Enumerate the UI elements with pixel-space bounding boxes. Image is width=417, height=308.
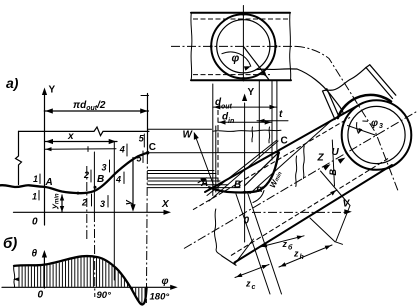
dimension t (257, 120, 288, 122)
svg-text:α: α (257, 184, 264, 195)
svg-text:h: h (300, 254, 304, 261)
pipe top inner edge (hidden) (193, 18, 289, 20)
dimension x (45, 141, 118, 143)
cross-section outer circle (211, 14, 275, 78)
centerline dot right (275, 45, 278, 48)
projection line y=129 (148, 128, 212, 130)
svg-text:z: z (282, 239, 288, 249)
projection vertical x=114 (113, 142, 115, 280)
svg-text:0: 0 (32, 217, 38, 228)
theta axis (43, 254, 45, 288)
strip break wavy line (213, 130, 281, 131)
extension line S1 (236, 194, 270, 294)
svg-text:0: 0 (38, 289, 44, 300)
extension d_out right (276, 81, 278, 150)
point B dev (94, 186, 97, 189)
svg-text:б): б) (3, 235, 17, 252)
axis Y (joint system) (244, 103, 246, 242)
z_h right extension lower (310, 218, 335, 242)
dimension pi*d_out/2 (44, 110, 148, 112)
development curve A-B-C (0, 153, 148, 194)
projection vertical through C / 180deg (147, 94, 149, 156)
pipe left break line (191, 13, 192, 81)
dimension z_h (279, 245, 332, 267)
point C joint (277, 151, 280, 154)
phi axis (2, 286, 174, 288)
extension d_out left (212, 84, 214, 196)
svg-text:б: б (288, 244, 293, 252)
pipe horizontal centerline (171, 45, 296, 47)
dimension z_c (235, 265, 269, 278)
projection line y=178 (148, 177, 218, 179)
svg-text:4: 4 (119, 145, 125, 155)
svg-text:180°: 180° (150, 291, 170, 302)
hatching under curve (19, 257, 145, 304)
cut face line K3 (250, 121, 331, 194)
projection vertical through B / 90deg (93, 152, 95, 213)
axis V (252, 211, 348, 213)
svg-text:W: W (183, 130, 194, 141)
svg-text:in: in (228, 118, 234, 125)
svg-text:1: 1 (32, 192, 37, 202)
point B joint (243, 191, 246, 194)
svg-text:3: 3 (102, 163, 107, 173)
svg-text:X: X (161, 199, 170, 210)
projection vertical x=259.5 (258, 81, 260, 158)
stub end cap (366, 65, 370, 68)
projection line y=152.7 (148, 152, 279, 154)
projection line y=181 (148, 180, 220, 182)
svg-text:B: B (97, 174, 104, 185)
axis Y (development) (44, 92, 46, 225)
svg-text:A: A (45, 177, 53, 188)
extension line double (215, 126, 217, 192)
svg-text:3: 3 (100, 199, 105, 209)
elbow centerline (296, 46, 399, 192)
stub right edge 2 (370, 65, 396, 95)
svg-text:2: 2 (81, 198, 87, 208)
cut face line K2 (209, 141, 278, 201)
dash vertical x=87 (86, 166, 88, 240)
svg-text:4: 4 (115, 175, 121, 185)
strip break wavy vertical 1 (251, 127, 254, 142)
band break wavy (214, 209, 222, 256)
phi angle arc (222, 52, 251, 66)
break wavy on cut lines (303, 146, 304, 179)
svg-text:out: out (221, 104, 233, 111)
svg-text:z: z (245, 279, 251, 289)
phi3 radius line (348, 126, 377, 136)
pipe bottom edge (191, 79, 291, 81)
branch inner circle (348, 106, 405, 163)
svg-text:φ: φ (371, 118, 378, 129)
z_h extension stroke A (321, 171, 351, 206)
band lower inner edge (hidden) (231, 159, 388, 256)
projection line y=184.8 (148, 184, 228, 186)
extension line S2 (248, 193, 282, 295)
pipe top edge (191, 12, 290, 14)
band upper inner edge (hidden) (193, 117, 350, 209)
strip break wavy vertical 2 (268, 127, 271, 143)
svg-text:y: y (123, 199, 133, 206)
projection line y=173.5 (148, 173, 216, 175)
svg-text:Z: Z (317, 153, 325, 164)
pipe right break line (290, 13, 291, 81)
phi radius line (243, 46, 268, 79)
pipe vertical centerline (242, 6, 244, 82)
axis W (196, 137, 214, 186)
projection line y=187.6 (148, 187, 240, 189)
stub top break edge (323, 68, 367, 92)
y dimension line with down arrow (132, 158, 134, 209)
svg-text:B: B (328, 169, 338, 176)
extension line C (235, 239, 254, 264)
band upper edge (205, 105, 359, 192)
svg-text:x: x (67, 131, 74, 142)
svg-text:θ: θ (32, 249, 38, 260)
z_h extension stroke B (336, 206, 350, 242)
svg-text:90°: 90° (97, 290, 112, 301)
axis Z arrowhead (323, 164, 331, 170)
pipe bottom inner edge (hidden) (193, 74, 270, 76)
svg-text:z: z (293, 249, 299, 259)
cross-section inner circle (217, 20, 270, 73)
svg-text:3: 3 (379, 123, 383, 130)
extension d_in right (271, 81, 273, 160)
chord line B-C (245, 153, 279, 186)
svg-text:φ: φ (162, 276, 169, 287)
svg-text:B: B (234, 180, 241, 191)
point C' on curve (146, 151, 149, 154)
stub edge over circle (bold arc) (338, 95, 391, 118)
stub right edge 1 (366, 68, 393, 99)
cut face line K1 (207, 140, 277, 196)
alpha angle arc (253, 191, 264, 203)
y_min dimension (61, 195, 63, 212)
phi3 angle arc (357, 123, 359, 134)
dimension d_in (218, 121, 272, 123)
stub left edge 2 (327, 89, 339, 117)
svg-text:φ: φ (232, 53, 240, 65)
circle bottom tick dot (242, 77, 245, 80)
dimension d_out (213, 106, 277, 108)
band end edge (222, 256, 236, 265)
svg-text:C: C (281, 136, 288, 147)
svg-text:1: 1 (33, 174, 38, 184)
theta curve (14, 256, 147, 304)
axis U arrowhead (338, 158, 346, 164)
weld seam curve (209, 153, 279, 193)
stub left edge 1 (323, 91, 336, 120)
axis X (development) (14, 211, 168, 213)
point on curve (77, 192, 80, 195)
development top edge with break (19, 127, 149, 136)
development left edge with break (16, 131, 22, 184)
projection line y=170.5 (148, 170, 214, 172)
z_h right extension steep (332, 140, 334, 186)
circle top tick dot (242, 13, 245, 16)
centerline dot left (210, 45, 213, 48)
branch outer circle (342, 100, 412, 170)
dimension z_b (260, 236, 304, 247)
svg-text:c: c (252, 284, 256, 291)
reference line y=149 (45, 148, 117, 151)
extension d_in left (dashed) (217, 110, 219, 190)
band lower edge (235, 165, 393, 263)
svg-text:2: 2 (83, 170, 89, 180)
svg-text:а): а) (6, 75, 19, 91)
svg-text:Y: Y (49, 85, 56, 96)
svg-text:C: C (149, 142, 156, 153)
left break of graph (14, 266, 15, 287)
svg-text:Y: Y (248, 87, 255, 98)
elbow inner curve (256, 69, 344, 114)
band axis / Z axis (184, 111, 417, 248)
